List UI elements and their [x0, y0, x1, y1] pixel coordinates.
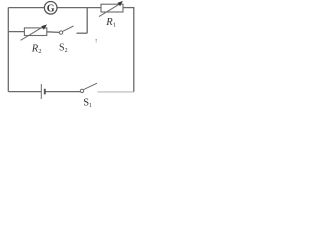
svg-text:G: G: [47, 3, 55, 14]
wire R2 to S2: [47, 31, 59, 34]
svg-text:S1: S1: [83, 97, 92, 109]
wire bottom left segment: [8, 91, 41, 93]
wire branch vertical up to top junction: [86, 8, 88, 34]
wire left vertical: [7, 8, 9, 92]
switch S2: [59, 26, 73, 34]
galvanometer G: [44, 2, 57, 15]
svg-text:S2: S2: [59, 43, 68, 55]
wire right vertical: [133, 8, 135, 92]
speck mark: [96, 39, 97, 42]
svg-text:R2: R2: [31, 43, 42, 55]
wire S2 right segment: [77, 32, 88, 34]
wire top right segment: [123, 7, 134, 9]
rheostat R2: [21, 24, 47, 40]
svg-text:R1: R1: [105, 17, 116, 29]
wire branch left (to R2): [8, 31, 24, 33]
wire battery to S1: [46, 91, 81, 93]
rheostat R1: [99, 1, 123, 17]
wire top middle segment (G to R1): [57, 7, 101, 9]
wire top left segment: [8, 7, 44, 9]
wire after S1 faint: [98, 91, 135, 93]
battery: [41, 84, 45, 99]
switch S1: [80, 83, 97, 92]
